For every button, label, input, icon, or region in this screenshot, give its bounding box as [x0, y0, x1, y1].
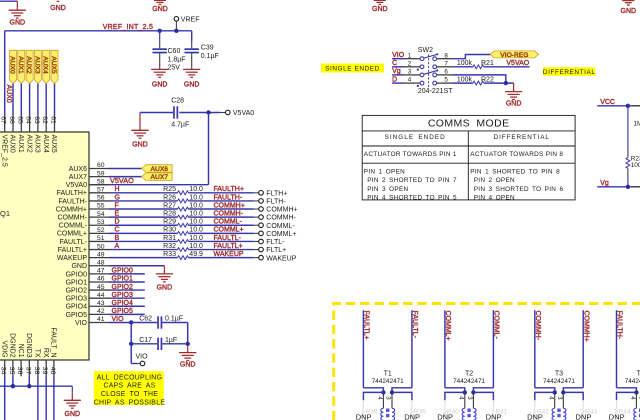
svg-text:T3: T3 [555, 370, 563, 377]
svg-text:R30: R30 [163, 227, 176, 234]
choke T3 core [557, 409, 560, 412]
svg-text:GPIO3: GPIO3 [112, 292, 134, 299]
wire T1 right jog [392, 388, 412, 393]
wire T3 right jog [563, 388, 583, 393]
svg-text:VIO: VIO [136, 353, 149, 360]
svg-text:744242471: 744242471 [453, 378, 485, 385]
wire T1 left DNP branch [363, 392, 383, 400]
wire to top-left ground [0, 0, 17, 2]
svg-text:COMML-: COMML- [266, 223, 295, 230]
choke T2 right winding [473, 408, 476, 420]
svg-text:SINGLE ENDED: SINGLE ENDED [325, 66, 380, 73]
svg-text:COMMH+: COMMH+ [266, 207, 297, 214]
svg-text:COMMS MODE: COMMS MODE [428, 118, 510, 130]
svg-text:1: 1 [408, 52, 412, 59]
pin 57 wire [89, 192, 109, 194]
node junction DGND2 [11, 384, 15, 388]
wire FAULT_N down [53, 376, 55, 420]
node junction V5VA0 [206, 110, 210, 114]
svg-text:PIN 2 SHORTED TO PIN 7: PIN 2 SHORTED TO PIN 7 [367, 177, 457, 184]
node junction T1 pin3 [390, 390, 394, 394]
svg-text:GPIO5: GPIO5 [112, 308, 134, 315]
resistor R21 100k [452, 66, 473, 68]
svg-text:FAULTH-: FAULTH- [616, 311, 623, 340]
svg-text:GND: GND [372, 6, 388, 13]
svg-text:AUX5: AUX5 [50, 135, 57, 153]
terminal COMML+ [254, 232, 259, 234]
svg-text:DGND2: DGND2 [9, 333, 16, 358]
svg-text:PIN 2 OPEN: PIN 2 OPEN [474, 177, 515, 184]
svg-text:DNP: DNP [527, 412, 543, 420]
wire pin8 to VIO-REG [452, 55, 490, 59]
svg-text:GND: GND [506, 100, 522, 107]
svg-text:R32: R32 [163, 243, 176, 250]
svg-text:GND: GND [180, 362, 196, 369]
wire T2 left jog [445, 388, 465, 393]
wire FAULTL- (T1 right) [411, 310, 413, 388]
svg-text:GPIO2: GPIO2 [112, 284, 134, 291]
svg-text:FAULTL+: FAULTL+ [58, 247, 87, 254]
svg-text:42: 42 [97, 308, 105, 315]
svg-text:CLOSE TO THE: CLOSE TO THE [101, 391, 158, 398]
svg-text:10.0: 10.0 [189, 235, 203, 242]
svg-text:COMML-: COMML- [214, 219, 243, 226]
off-page tag AUX0 [10, 50, 17, 83]
svg-text:744242471: 744242471 [543, 378, 575, 385]
svg-text:AUX7: AUX7 [69, 174, 87, 181]
svg-text:AUX1: AUX1 [17, 135, 24, 153]
pin 41 VIO [89, 322, 109, 324]
svg-text:DNP: DNP [356, 412, 372, 420]
svg-text:R29: R29 [163, 219, 176, 226]
pin 3 stub T2 [472, 392, 474, 408]
svg-text:T1: T1 [384, 370, 392, 377]
wire T3 left DNP branch [535, 392, 555, 400]
svg-text:1.8µF: 1.8µF [168, 56, 186, 63]
resistor R26 [109, 200, 178, 202]
capacitor C62 [131, 322, 157, 324]
resistor R33 [109, 257, 178, 259]
svg-text:COMML+: COMML+ [214, 227, 244, 234]
svg-text:COMMH+: COMMH+ [582, 311, 589, 342]
wire left edge down to pin 67 [4, 31, 6, 116]
choke T1 left winding [381, 408, 384, 420]
svg-text:GND: GND [132, 141, 148, 148]
svg-text:10.0: 10.0 [189, 211, 203, 218]
svg-text:DNP: DNP [609, 412, 625, 420]
wire T4 left DNP branch [617, 392, 637, 400]
off-page tag AUX4 [43, 50, 50, 83]
svg-text:48: 48 [97, 259, 105, 266]
SW2 lever pole 1 [424, 55, 437, 59]
svg-text:VIO: VIO [392, 52, 405, 59]
choke T4 core [639, 409, 640, 412]
svg-text:55: 55 [97, 203, 105, 210]
label DIFFERENTIAL [543, 67, 596, 76]
terminal COMMH- [254, 216, 259, 218]
svg-text:NC1: NC1 [17, 344, 24, 358]
svg-text:DGND3: DGND3 [25, 333, 32, 358]
wire AUX1 tag to pin [20, 84, 22, 116]
terminal COMMH+ [254, 208, 259, 210]
svg-text:AUX6: AUX6 [69, 166, 87, 173]
pin 34 VDIG stub (bottom) [4, 360, 6, 376]
svg-text:GND: GND [50, 5, 66, 12]
svg-text:DIFFERENTIAL: DIFFERENTIAL [494, 134, 550, 141]
svg-text:T4: T4 [637, 370, 640, 377]
pin 40 FAULT_N stub (bottom) [53, 360, 55, 376]
svg-text:GPIO1: GPIO1 [112, 276, 134, 283]
svg-text:54: 54 [97, 211, 105, 218]
svg-text:3: 3 [385, 396, 391, 400]
svg-text:DNP: DNP [486, 412, 502, 420]
wire AUX5 tag to pin [54, 84, 56, 116]
svg-text:Vg: Vg [392, 68, 401, 75]
net label Vg (SW2 pin 3) [392, 74, 404, 76]
svg-text:SINGLE ENDED: SINGLE ENDED [385, 134, 446, 141]
svg-text:56: 56 [97, 195, 105, 202]
pin 53 wire [89, 224, 109, 226]
wire T3 left jog [535, 388, 555, 393]
svg-text:R31: R31 [163, 235, 176, 242]
svg-text:GPIO3: GPIO3 [66, 296, 88, 303]
node junction Vg [626, 185, 630, 189]
svg-text:62: 62 [41, 116, 48, 124]
wire T2 right jog [473, 388, 493, 393]
resistor R27 [109, 208, 178, 210]
node junction VREF wire [174, 29, 178, 33]
svg-text:WAKEUP: WAKEUP [266, 255, 296, 262]
svg-text:COMML+: COMML+ [57, 231, 87, 238]
node junction T1 pin4 [381, 390, 385, 394]
svg-text:VIO: VIO [75, 320, 88, 327]
svg-text:COMMH-: COMMH- [266, 215, 296, 222]
terminal COMML- [254, 224, 259, 226]
svg-text:C: C [392, 60, 397, 67]
svg-text:AUX5: AUX5 [50, 56, 57, 74]
svg-text:COMML+: COMML+ [444, 311, 451, 341]
dashed highlight box [334, 304, 640, 420]
svg-text:50: 50 [97, 243, 105, 250]
SW2 throw dot pole 4 [417, 85, 419, 87]
pin 63 AUX3 stub (top) [37, 116, 39, 132]
ground GND (bottom rail) [71, 393, 73, 400]
svg-text:38: 38 [33, 367, 40, 375]
node junction T3 pin4 [553, 390, 557, 394]
svg-text:Vg: Vg [600, 180, 609, 187]
pin 39 RX stub (bottom) [45, 360, 47, 376]
svg-text:VIO: VIO [112, 316, 125, 323]
terminal V5VA0 [221, 112, 226, 114]
svg-text:GPIO4: GPIO4 [66, 304, 88, 311]
resistor R44 DNP ghost [616, 400, 618, 409]
node junction C17-GND [186, 342, 190, 346]
svg-text:AUX4: AUX4 [42, 135, 49, 153]
svg-text:8: 8 [444, 52, 448, 59]
capacitor C28 [173, 106, 175, 118]
svg-text:4: 4 [629, 396, 635, 400]
terminal FLTH- [254, 200, 259, 202]
off-page tag AUX3 [34, 50, 41, 83]
pin 52 wire [89, 232, 109, 234]
svg-text:46: 46 [97, 276, 105, 283]
svg-text:63: 63 [33, 116, 40, 124]
svg-text:4: 4 [457, 396, 463, 400]
wire T4 left jog [617, 388, 637, 393]
svg-text:VDIG: VDIG [0, 340, 7, 357]
svg-text:10.0: 10.0 [189, 219, 203, 226]
svg-text:C60: C60 [168, 48, 181, 55]
capacitor C39 [191, 41, 193, 48]
pin 42 GPIO5 [89, 313, 109, 315]
svg-text:47: 47 [97, 268, 105, 275]
wire TX down [37, 376, 39, 420]
svg-text:3Q1: 3Q1 [0, 209, 10, 218]
svg-text:37: 37 [24, 367, 31, 375]
svg-text:67: 67 [0, 116, 7, 124]
svg-text:PIN 1 SHORTED TO PIN 8: PIN 1 SHORTED TO PIN 8 [470, 169, 560, 176]
svg-text:WAKEUP: WAKEUP [214, 251, 244, 258]
svg-text:R27: R27 [163, 202, 176, 209]
pin 3 stub T3 [562, 392, 564, 408]
wire DGND3 to rail [28, 376, 30, 386]
resistor R31 [109, 240, 178, 242]
svg-text:FAULTH+: FAULTH+ [57, 190, 87, 197]
resistor R30 [109, 232, 178, 234]
svg-text:PIN 3 SHORTED TO PIN 6: PIN 3 SHORTED TO PIN 6 [474, 186, 564, 193]
wire C62 to C17 [187, 323, 189, 344]
ground GND (C60) [151, 68, 168, 70]
svg-text:40: 40 [49, 367, 56, 375]
SW2 throw dot pole 2 [417, 69, 419, 71]
svg-text:WAKEUP: WAKEUP [57, 255, 87, 262]
svg-text:C17: C17 [139, 337, 152, 344]
pin 56 wire [89, 200, 109, 202]
wire AUX2 tag to pin [29, 84, 31, 116]
svg-text:35: 35 [8, 367, 15, 375]
svg-text:0.1µF: 0.1µF [165, 316, 183, 323]
pin 48 GND [89, 265, 109, 267]
pin 4 stub T3 [554, 392, 556, 408]
svg-text:FAULTL-: FAULTL- [60, 239, 88, 246]
svg-text:744242471: 744242471 [625, 378, 640, 385]
terminal VIO [138, 363, 140, 365]
svg-text:GPIO2: GPIO2 [66, 287, 88, 294]
ground GND (clipped, x628) [622, 0, 634, 2]
ground GND (clipped, x160) [154, 0, 166, 1]
svg-text:66: 66 [8, 116, 15, 124]
svg-text:59: 59 [97, 170, 105, 177]
node junction T4 pin4 [634, 390, 638, 394]
pin 51 wire [89, 240, 109, 242]
terminal VREF [174, 17, 179, 22]
pin 62 AUX4 stub (top) [45, 116, 47, 132]
SW2 pole 3-6 [404, 74, 420, 76]
svg-text:COMML-: COMML- [59, 223, 88, 230]
net label VIO (SW2 pin 1) [392, 58, 404, 60]
svg-text:6: 6 [444, 69, 448, 76]
pin 35 DGND2 stub (bottom) [12, 360, 14, 376]
svg-text:34: 34 [0, 367, 7, 375]
pin 37 DGND3 stub (bottom) [28, 360, 30, 376]
choke T4 left winding [634, 408, 637, 420]
svg-text:PIN 4 OPEN: PIN 4 OPEN [474, 194, 515, 201]
terminal FLTH+ [254, 192, 259, 194]
pin 55 wire [89, 208, 109, 210]
wire V5VA0 down to pin 58 [208, 113, 210, 185]
wire VCC rail [597, 105, 640, 107]
pin 3 stub T1 [391, 392, 393, 408]
terminal WAKEUP [254, 257, 259, 259]
wire C28 left [140, 112, 173, 114]
svg-text:60: 60 [97, 162, 105, 169]
svg-text:65: 65 [16, 116, 23, 124]
wire junction to junction [130, 323, 132, 344]
svg-text:49: 49 [97, 251, 105, 258]
svg-text:25V: 25V [168, 65, 181, 72]
pin 46 GPIO1 [89, 281, 109, 283]
svg-text:V5VAO: V5VAO [110, 176, 134, 185]
svg-text:COMMH-: COMMH- [534, 311, 541, 341]
svg-text:C62: C62 [139, 316, 152, 323]
svg-text:10.0: 10.0 [189, 243, 203, 250]
wire C28 right [179, 112, 220, 114]
pin 47 GPIO0 [89, 273, 109, 275]
choke T2 core [467, 409, 470, 412]
svg-text:COMMH+: COMMH+ [214, 202, 245, 209]
svg-text:100k: 100k [457, 60, 473, 67]
off-page tag AUX6 [142, 165, 173, 173]
wire AUX3 tag to pin [37, 84, 39, 116]
svg-text:FLTH-: FLTH- [266, 199, 286, 206]
capacitor C60 [158, 29, 162, 33]
svg-text:AUX4: AUX4 [42, 56, 49, 74]
net label C (SW2 pin 2) [392, 66, 404, 68]
pin 43 GPIO4 [89, 305, 109, 307]
svg-text:44: 44 [97, 292, 105, 299]
svg-text:FLTH+: FLTH+ [266, 190, 287, 197]
SW2 mechanical link [428, 55, 430, 88]
pin 45 GPIO2 [89, 289, 109, 291]
resistor R25 [109, 192, 178, 194]
node junction DGND3 [27, 384, 31, 388]
svg-text:1µF: 1µF [165, 337, 177, 344]
svg-text:FAULTL+: FAULTL+ [363, 311, 370, 340]
svg-text:VIO-REG: VIO-REG [500, 52, 528, 59]
svg-text:GND: GND [152, 6, 168, 13]
svg-text:4: 4 [408, 77, 412, 84]
wire AUX0 tag to pin [12, 84, 14, 116]
svg-text:AUX0: AUX0 [9, 56, 16, 74]
pin 4 stub T4 [635, 392, 637, 408]
node junction VCC [626, 104, 630, 108]
svg-text:DNP: DNP [437, 412, 453, 420]
ground GND (C28) [139, 115, 141, 130]
wire T1 left jog [363, 388, 383, 393]
svg-text:3: 3 [408, 69, 412, 76]
pin 64 AUX2 stub (top) [29, 116, 31, 132]
svg-text:1M: 1M [633, 121, 640, 128]
svg-text:5: 5 [444, 77, 448, 84]
svg-text:4.7µF: 4.7µF [171, 121, 189, 128]
svg-text:204-221ST: 204-221ST [418, 88, 453, 95]
ground GND (clipped, x58) [57, 0, 60, 2]
power tag VIO-REG [490, 51, 538, 58]
choke T1 right winding [392, 408, 395, 420]
terminal FLTL- [254, 240, 259, 242]
svg-text:VREF: VREF [181, 16, 200, 23]
svg-text:GPIO4: GPIO4 [112, 300, 134, 307]
svg-text:AUX2: AUX2 [25, 56, 32, 74]
pin 61 AUX5 stub (top) [54, 116, 56, 132]
svg-text:AUX1: AUX1 [17, 56, 24, 74]
SW2 pole 4-5 [404, 82, 420, 84]
svg-text:0.1µF: 0.1µF [201, 53, 219, 60]
svg-text:AUX0: AUX0 [5, 85, 12, 103]
capacitor C17 [131, 343, 157, 345]
wire T2 right DNP branch [473, 392, 493, 400]
svg-text:ALL DECOUPLING: ALL DECOUPLING [97, 374, 162, 381]
svg-text:COMMH-: COMMH- [214, 211, 244, 218]
pin 67 VREF_2.5 stub (top) [4, 116, 6, 132]
svg-text:C28: C28 [171, 98, 184, 105]
svg-text:R21: R21 [481, 60, 494, 67]
svg-text:GND: GND [157, 284, 173, 291]
svg-text:61: 61 [50, 116, 57, 124]
pin 49 wire [89, 257, 109, 259]
svg-text:64: 64 [25, 116, 32, 124]
svg-text:3: 3 [466, 396, 472, 400]
pin 4 stub T2 [464, 392, 466, 408]
off-page tag AUX7 [142, 173, 173, 181]
svg-text:53: 53 [97, 219, 105, 226]
svg-text:GND: GND [152, 81, 168, 88]
resistor R39 DNP ghost [411, 400, 413, 409]
svg-text:AUX2: AUX2 [25, 135, 32, 153]
svg-text:10.0: 10.0 [189, 202, 203, 209]
svg-text:36: 36 [16, 367, 23, 375]
svg-text:49.9: 49.9 [189, 251, 203, 258]
ground GND (clipped, x380) [374, 0, 386, 1]
choke T3 left winding [552, 408, 555, 420]
svg-text:SW2: SW2 [418, 47, 433, 54]
svg-text:AUX7: AUX7 [151, 174, 169, 181]
choke T2 left winding [462, 408, 465, 420]
wire RX down [45, 376, 47, 420]
svg-text:AUX3: AUX3 [34, 135, 41, 153]
resistor R22 100k [452, 82, 473, 84]
node junction pin6-pin5 [504, 81, 508, 85]
resistor R23 100k (right edge) [627, 106, 629, 150]
svg-text:4: 4 [376, 396, 382, 400]
label SINGLE ENDED [321, 64, 384, 73]
node junction VIO-C62 [129, 320, 133, 324]
svg-text:100k: 100k [631, 162, 640, 169]
pin 58 V5VA0 [89, 184, 109, 186]
pin 59 AUX7 [89, 176, 109, 178]
svg-text:GND: GND [184, 81, 200, 88]
choke T1 core [386, 409, 389, 412]
table COMMS MODE frame [362, 115, 575, 199]
svg-text:AUX6: AUX6 [151, 166, 169, 173]
svg-text:FAULTL-: FAULTL- [214, 235, 242, 242]
svg-text:GND: GND [10, 19, 26, 26]
resistor R43 DNP ghost [582, 400, 584, 409]
SW2 pole 2-7 [404, 66, 420, 68]
wire T2 left DNP branch [445, 392, 465, 400]
wire T1 right DNP branch [392, 392, 412, 400]
svg-text:COMMH-: COMMH- [57, 215, 87, 222]
